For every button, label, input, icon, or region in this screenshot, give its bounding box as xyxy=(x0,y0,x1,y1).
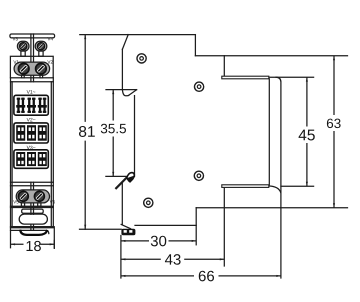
dim 30 line xyxy=(121,240,196,242)
top edge xyxy=(80,34,196,36)
arrowheads xyxy=(11,35,335,277)
bottom rear edge + 63 bottom ext xyxy=(196,207,347,209)
screw V3 xyxy=(20,43,27,50)
rivet 3 xyxy=(194,171,203,180)
bottom clip black body xyxy=(121,229,135,236)
label V5 xyxy=(13,200,18,203)
foot under V6 xyxy=(38,203,41,206)
arrows 66 xyxy=(121,275,125,277)
arrows 43 xyxy=(121,258,125,260)
dim 63 line xyxy=(333,56,335,208)
dim 18 line xyxy=(11,243,55,245)
bottom bar corner to rear face xyxy=(269,186,281,193)
clip flag pole xyxy=(116,177,127,188)
bottom clip window left xyxy=(124,230,127,233)
dim text 43 xyxy=(165,254,181,265)
arrows 18 xyxy=(11,243,15,245)
43 right extension xyxy=(223,187,225,266)
arrows 45 xyxy=(306,77,308,81)
body outer sides xyxy=(11,78,55,248)
foot under V5 xyxy=(21,203,24,206)
foot under V2 xyxy=(40,75,43,78)
bottom clip slant xyxy=(121,224,130,228)
rivet 4 xyxy=(144,198,153,207)
label V2 xyxy=(47,60,52,63)
label V3~ xyxy=(27,146,36,150)
label V6 xyxy=(50,200,55,203)
arrows 63 xyxy=(333,56,335,60)
center column right line xyxy=(33,34,35,230)
label V1 xyxy=(13,60,18,63)
arrows 35.5 xyxy=(112,90,114,94)
body inner sides xyxy=(12,82,51,227)
dim text 81 xyxy=(79,126,95,137)
foot under V3 xyxy=(21,51,25,56)
clip flag head outline xyxy=(127,173,135,182)
foot under V1 xyxy=(22,75,25,78)
screw V1 xyxy=(18,63,29,74)
recess bottom flange bar xyxy=(222,185,269,188)
V1/V2 pill xyxy=(14,62,50,75)
rear extension (66) xyxy=(280,208,282,278)
mid bottom edge xyxy=(135,224,196,226)
dim 18 right extension xyxy=(53,240,55,249)
connector block V1~ xyxy=(14,95,48,115)
stadium xyxy=(19,214,47,224)
screw V5 xyxy=(18,191,28,201)
35.5 bottom extension tick xyxy=(106,175,126,177)
rivet 2 xyxy=(195,82,204,91)
dim 35.5 line xyxy=(112,90,114,177)
arrows 30 xyxy=(121,240,125,242)
screw V2 xyxy=(36,63,47,74)
lower inner edge xyxy=(121,183,123,225)
dim text 63 xyxy=(327,119,341,129)
notch slant xyxy=(129,90,137,96)
recess back wall xyxy=(268,79,270,185)
label V2~ xyxy=(27,118,36,121)
dim 45 line xyxy=(306,77,308,186)
label V3 xyxy=(12,37,17,40)
terminal pill V4 xyxy=(35,41,47,51)
label V4 xyxy=(47,37,52,40)
step down at top xyxy=(194,35,196,56)
dim text 35.5 xyxy=(101,124,126,134)
divider lines under stadium xyxy=(11,227,54,228)
rear face with top corner xyxy=(276,77,281,208)
V1/V2 box xyxy=(10,56,53,78)
mid inner edge xyxy=(134,96,136,177)
V5/V6 pill xyxy=(16,190,49,203)
notch hook curve xyxy=(122,90,128,96)
vertical above top flange xyxy=(223,56,225,77)
dim text 66 xyxy=(199,271,214,282)
step near bottom + 30 right ext xyxy=(195,208,197,245)
clip flag head solid tip xyxy=(128,176,134,182)
upper inner edge xyxy=(121,49,123,89)
dim text 18 xyxy=(27,241,41,251)
rivet 1 xyxy=(137,54,146,63)
dim text 30 xyxy=(151,236,167,247)
top rear edge + 63 top extension xyxy=(195,55,347,57)
front bottom edge + 81 ext xyxy=(80,228,122,230)
front clip top line xyxy=(11,230,49,233)
top cap bar xyxy=(10,34,55,38)
front clip black arc xyxy=(20,231,47,235)
recess top flange bar xyxy=(222,76,269,79)
dim 66 line xyxy=(121,275,281,277)
45 bottom extension xyxy=(281,185,314,187)
notch tick (35.5 top extension) xyxy=(106,89,137,91)
screw V6 xyxy=(34,191,44,201)
shared left extension (30/43/66) xyxy=(120,236,122,279)
arrows 81 xyxy=(84,35,86,39)
bottom clip window right xyxy=(129,230,132,233)
screw V4 xyxy=(37,43,44,50)
connector block V3~ xyxy=(14,150,48,169)
divider lines under V5/V6 xyxy=(11,206,54,207)
front face + 81 dim line xyxy=(84,35,86,230)
connector block V2~ xyxy=(14,123,48,143)
divider lines above V5/V6 xyxy=(11,182,54,186)
foot under V4 xyxy=(39,51,43,56)
tray rect xyxy=(22,209,44,213)
dim 43 line xyxy=(121,258,224,260)
divider line under V1/V2 xyxy=(11,81,54,83)
chamfer xyxy=(122,35,128,50)
dim text 45 xyxy=(299,130,315,141)
center column left line xyxy=(30,34,32,230)
45 top extension xyxy=(269,76,314,78)
label V1~ xyxy=(27,90,36,93)
terminal pill V3 xyxy=(17,41,29,51)
